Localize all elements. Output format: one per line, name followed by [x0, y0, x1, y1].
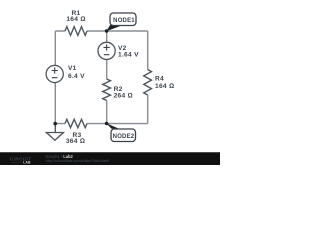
- svg-text:164 Ω: 164 Ω: [66, 16, 85, 23]
- svg-text:R4: R4: [155, 76, 164, 83]
- svg-text:V1: V1: [68, 65, 77, 72]
- svg-text:1.64 V: 1.64 V: [118, 51, 139, 58]
- svg-text:NODE2: NODE2: [113, 134, 135, 140]
- svg-text:http://circuitlab.com/c/bkn75z: http://circuitlab.com/c/bkn75zh2hm6: [46, 159, 110, 163]
- svg-text:—∼— LAB: —∼— LAB: [12, 160, 31, 164]
- svg-text:264 Ω: 264 Ω: [114, 92, 133, 99]
- svg-text:164 Ω: 164 Ω: [155, 83, 174, 90]
- svg-text:6.4 V: 6.4 V: [68, 73, 85, 80]
- svg-text:NODE1: NODE1: [113, 18, 135, 24]
- svg-text:364 Ω: 364 Ω: [66, 138, 85, 145]
